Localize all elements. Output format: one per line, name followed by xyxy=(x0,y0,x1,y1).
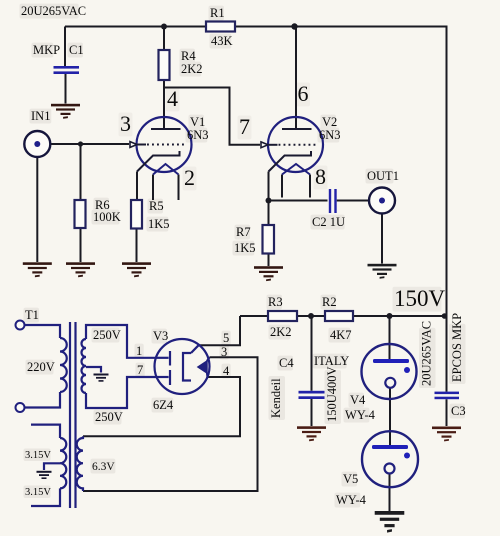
svg-text:3.15V: 3.15V xyxy=(25,450,51,461)
svg-text:R4: R4 xyxy=(181,49,196,63)
svg-text:2K2: 2K2 xyxy=(270,325,292,339)
svg-text:4K7: 4K7 xyxy=(330,328,352,342)
svg-text:V5: V5 xyxy=(343,472,358,486)
svg-text:C2 1U: C2 1U xyxy=(312,215,345,229)
svg-text:C3: C3 xyxy=(451,404,466,418)
svg-text:7: 7 xyxy=(239,114,250,139)
svg-text:1: 1 xyxy=(136,344,142,358)
svg-text:V4: V4 xyxy=(350,393,366,407)
svg-text:R7: R7 xyxy=(236,225,251,239)
svg-text:3.15V: 3.15V xyxy=(25,487,51,498)
svg-text:1K5: 1K5 xyxy=(234,241,256,255)
svg-text:43K: 43K xyxy=(211,34,233,48)
svg-text:1K5: 1K5 xyxy=(148,217,170,231)
svg-text:6.3V: 6.3V xyxy=(92,461,115,473)
svg-text:220V: 220V xyxy=(27,360,55,374)
svg-text:150U400V: 150U400V xyxy=(325,366,339,422)
svg-text:T1: T1 xyxy=(25,308,39,322)
svg-text:3: 3 xyxy=(221,345,227,359)
svg-text:100K: 100K xyxy=(93,210,121,224)
svg-text:2: 2 xyxy=(184,165,195,190)
svg-text:8: 8 xyxy=(315,164,326,189)
svg-text:WY-4: WY-4 xyxy=(345,408,376,422)
svg-text:250V: 250V xyxy=(95,410,123,424)
svg-text:250V: 250V xyxy=(93,328,121,342)
svg-text:150V: 150V xyxy=(394,286,446,311)
svg-text:4: 4 xyxy=(167,86,178,111)
svg-text:ITALY: ITALY xyxy=(314,354,349,368)
svg-text:Kendeil: Kendeil xyxy=(269,378,283,418)
svg-text:4: 4 xyxy=(223,364,230,378)
svg-text:MKP: MKP xyxy=(33,43,60,57)
svg-text:7: 7 xyxy=(137,363,143,377)
svg-text:R5: R5 xyxy=(149,199,164,213)
svg-text:C1: C1 xyxy=(69,43,84,57)
svg-text:R2: R2 xyxy=(322,295,337,309)
svg-text:6Z4: 6Z4 xyxy=(153,398,174,412)
svg-text:R1: R1 xyxy=(210,6,225,20)
svg-text:3: 3 xyxy=(120,111,131,136)
svg-text:2K2: 2K2 xyxy=(181,62,203,76)
svg-text:C4: C4 xyxy=(279,356,294,370)
svg-text:5: 5 xyxy=(223,331,229,345)
svg-text:V3: V3 xyxy=(153,329,168,343)
svg-text:V1: V1 xyxy=(190,115,205,129)
svg-text:IN1: IN1 xyxy=(31,109,50,123)
svg-text:WY-4: WY-4 xyxy=(336,493,367,507)
svg-text:6N3: 6N3 xyxy=(319,128,341,142)
svg-text:OUT1: OUT1 xyxy=(367,169,399,183)
svg-text:20U265VAC: 20U265VAC xyxy=(420,321,434,386)
svg-text:20U265VAC: 20U265VAC xyxy=(21,4,86,18)
svg-text:R3: R3 xyxy=(268,295,283,309)
svg-text:6: 6 xyxy=(298,81,309,106)
svg-text:EPCOS MKP: EPCOS MKP xyxy=(450,313,464,382)
svg-text:6N3: 6N3 xyxy=(187,128,209,142)
svg-text:V2: V2 xyxy=(322,115,337,129)
